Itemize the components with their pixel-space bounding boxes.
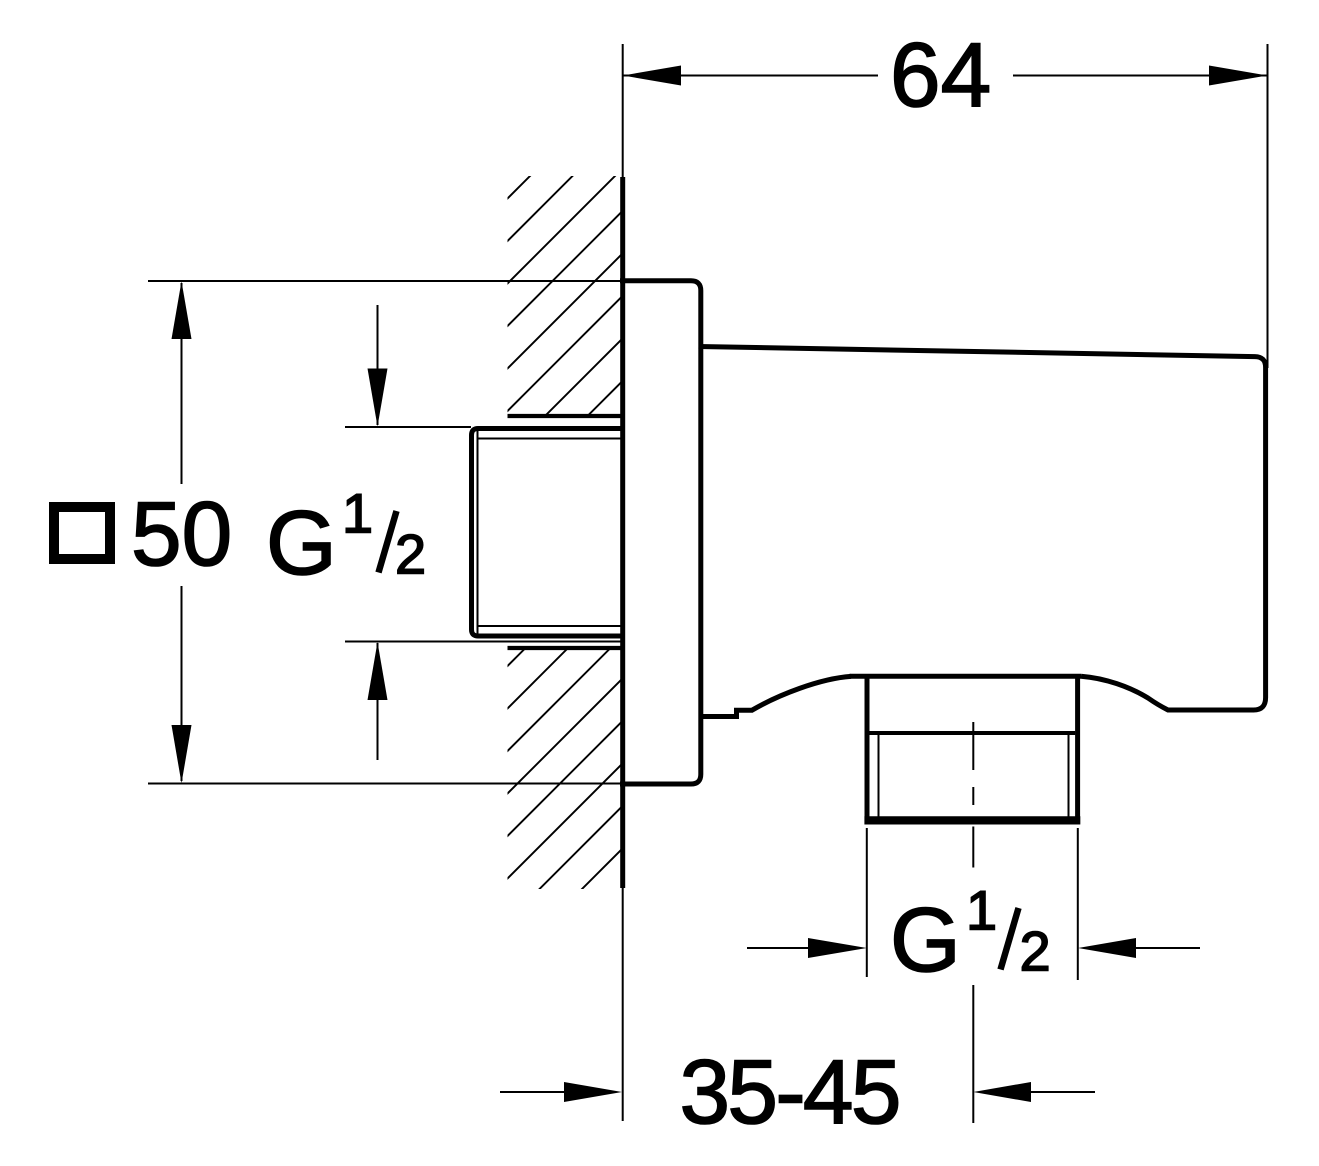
svg-text:64: 64	[890, 25, 991, 126]
svg-text:1: 1	[342, 482, 373, 545]
svg-text:G: G	[266, 493, 337, 594]
svg-text:50: 50	[131, 484, 232, 585]
svg-text:35-45: 35-45	[680, 1042, 899, 1143]
svg-text:1: 1	[966, 879, 997, 942]
svg-text:G: G	[890, 890, 961, 991]
svg-text:2: 2	[395, 523, 426, 586]
svg-text:2: 2	[1020, 920, 1051, 983]
